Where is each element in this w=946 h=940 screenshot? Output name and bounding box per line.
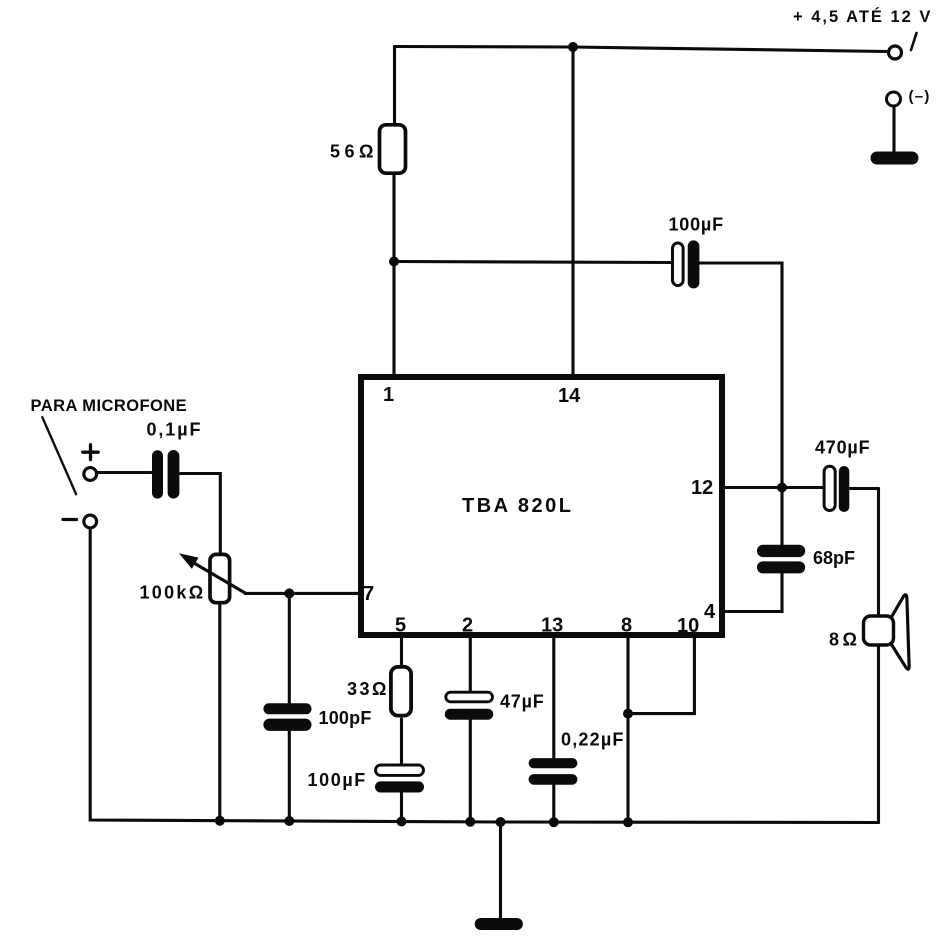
potentiometer 100k body — [210, 554, 230, 602]
wire 0,1uF to potentiometer top — [181, 474, 221, 553]
ground (bottom center) — [475, 918, 523, 930]
terminal (-) — [887, 92, 901, 106]
node junction pin8 / pin10 — [623, 709, 633, 719]
wire 33 ohm to 100uF — [400, 719, 403, 766]
wire switch tick at V+ terminal — [911, 33, 917, 50]
wire output vertical through speaker to ground bus — [877, 489, 880, 823]
wire pin 13 to 0,22uF — [552, 635, 555, 759]
svg-text:TBA 820L: TBA 820L — [462, 495, 574, 517]
wire 100uF cap to right vertical — [700, 263, 783, 488]
svg-text:68pF: 68pF — [813, 548, 855, 568]
svg-text:100pF: 100pF — [319, 708, 372, 728]
svg-text:(–): (–) — [909, 88, 931, 105]
node junction bus/100pF — [284, 816, 294, 826]
capacitor 470uF (electrolytic) — [824, 466, 849, 512]
resistor 33 ohm — [391, 667, 411, 716]
wire 68pF top lead — [780, 488, 783, 546]
wire 100uF to ground bus — [400, 792, 403, 822]
wire 56-ohm bottom lead to pin 1 — [392, 175, 395, 377]
node junction bus/pin8 — [623, 817, 633, 827]
wire + terminal to 0,1uF — [98, 471, 152, 474]
svg-text:47µF: 47µF — [500, 692, 545, 712]
wire ground stub — [499, 822, 502, 918]
wire 100pF to ground bus — [288, 731, 291, 822]
wire 470uF to output vertical — [850, 487, 879, 490]
ground (top right) — [871, 152, 919, 165]
terminal - sign — [63, 518, 77, 521]
node junction pin12 / 68pF — [777, 483, 787, 493]
wire pin 10 to pin 8 — [628, 635, 694, 714]
wire V+ top rail — [395, 47, 887, 52]
svg-text:PARA MICROFONE: PARA MICROFONE — [31, 397, 188, 415]
capacitor 100pF — [263, 703, 311, 731]
svg-text:470µF: 470µF — [815, 438, 870, 458]
svg-text:13: 13 — [541, 615, 563, 637]
node junction pin1 / feed wire — [389, 257, 399, 267]
node junction bus/pot — [215, 816, 225, 826]
capacitor 0,22uF — [529, 758, 578, 785]
potentiometer wiper arrow — [179, 553, 246, 593]
wire pin 8 to ground bus — [626, 635, 629, 822]
svg-text:100µF: 100µF — [308, 770, 367, 790]
wire wiper to pin 7 — [245, 592, 361, 595]
speaker 8 ohm — [864, 595, 910, 670]
op-amp IC U1 TBA 820L body — [361, 377, 722, 635]
wire junction down to 100pF — [288, 593, 291, 704]
capacitor 100uF (bottom, electrolytic) — [375, 765, 424, 793]
wire pin 12 to 470uF — [722, 486, 823, 489]
svg-text:14: 14 — [558, 385, 581, 407]
svg-text:33Ω: 33Ω — [347, 679, 389, 699]
svg-text:2: 2 — [462, 615, 473, 637]
wire pot bottom to ground bus — [218, 604, 221, 821]
svg-text:0,22µF: 0,22µF — [561, 730, 625, 750]
terminal + 4,5 ATE 12V — [889, 46, 902, 59]
svg-text:4: 4 — [704, 601, 716, 623]
resistor 56 ohm — [380, 125, 406, 173]
capacitor 47uF (electrolytic) — [445, 692, 493, 720]
svg-text:100kΩ: 100kΩ — [140, 583, 206, 603]
capacitor 100uF (top, electrolytic) — [673, 240, 700, 288]
node junction bus/pin13 — [549, 817, 559, 827]
svg-text:1: 1 — [383, 384, 394, 406]
node junction top rail / pin14 — [568, 42, 578, 52]
wire 56-ohm top lead — [393, 47, 396, 125]
terminal + microphone input — [84, 468, 97, 481]
svg-text:0,1µF: 0,1µF — [147, 420, 203, 440]
svg-text:8Ω: 8Ω — [829, 630, 860, 650]
wire pin 2 to 47uF — [469, 635, 472, 693]
capacitor 0,1uF — [152, 450, 179, 499]
wire 47uF to ground bus — [469, 719, 472, 822]
svg-text:10: 10 — [677, 615, 699, 637]
svg-text:56Ω: 56Ω — [330, 142, 378, 162]
node junction bus/ground stub — [496, 817, 506, 827]
wire 0,22uF to ground bus — [552, 784, 555, 822]
wire pin 14 vertical — [571, 47, 574, 376]
wire 68pF bottom lead to pin 4 — [722, 573, 782, 612]
svg-text:5: 5 — [395, 615, 406, 637]
wire (-) terminal to ground — [892, 107, 895, 155]
wire pin 5 to 33 ohm — [400, 635, 403, 666]
node junction bus/pin2 — [465, 817, 475, 827]
svg-text:8: 8 — [621, 615, 632, 637]
terminal - microphone input — [84, 515, 97, 528]
node junction pin7 / 100pF — [284, 588, 294, 598]
wire label leader (PARA MICROFONE) — [42, 417, 76, 494]
svg-text:12: 12 — [691, 477, 713, 499]
terminal + sign — [83, 445, 98, 460]
svg-text:+ 4,5 ATÉ 12 V: + 4,5 ATÉ 12 V — [793, 7, 932, 26]
wire junction to 100uF top cap — [394, 262, 672, 263]
wire - terminal down and ground bus — [90, 529, 878, 823]
node junction bus/pin5 — [397, 817, 407, 827]
svg-text:7: 7 — [363, 583, 374, 605]
capacitor 68pF — [757, 545, 805, 574]
svg-text:100µF: 100µF — [669, 215, 724, 235]
